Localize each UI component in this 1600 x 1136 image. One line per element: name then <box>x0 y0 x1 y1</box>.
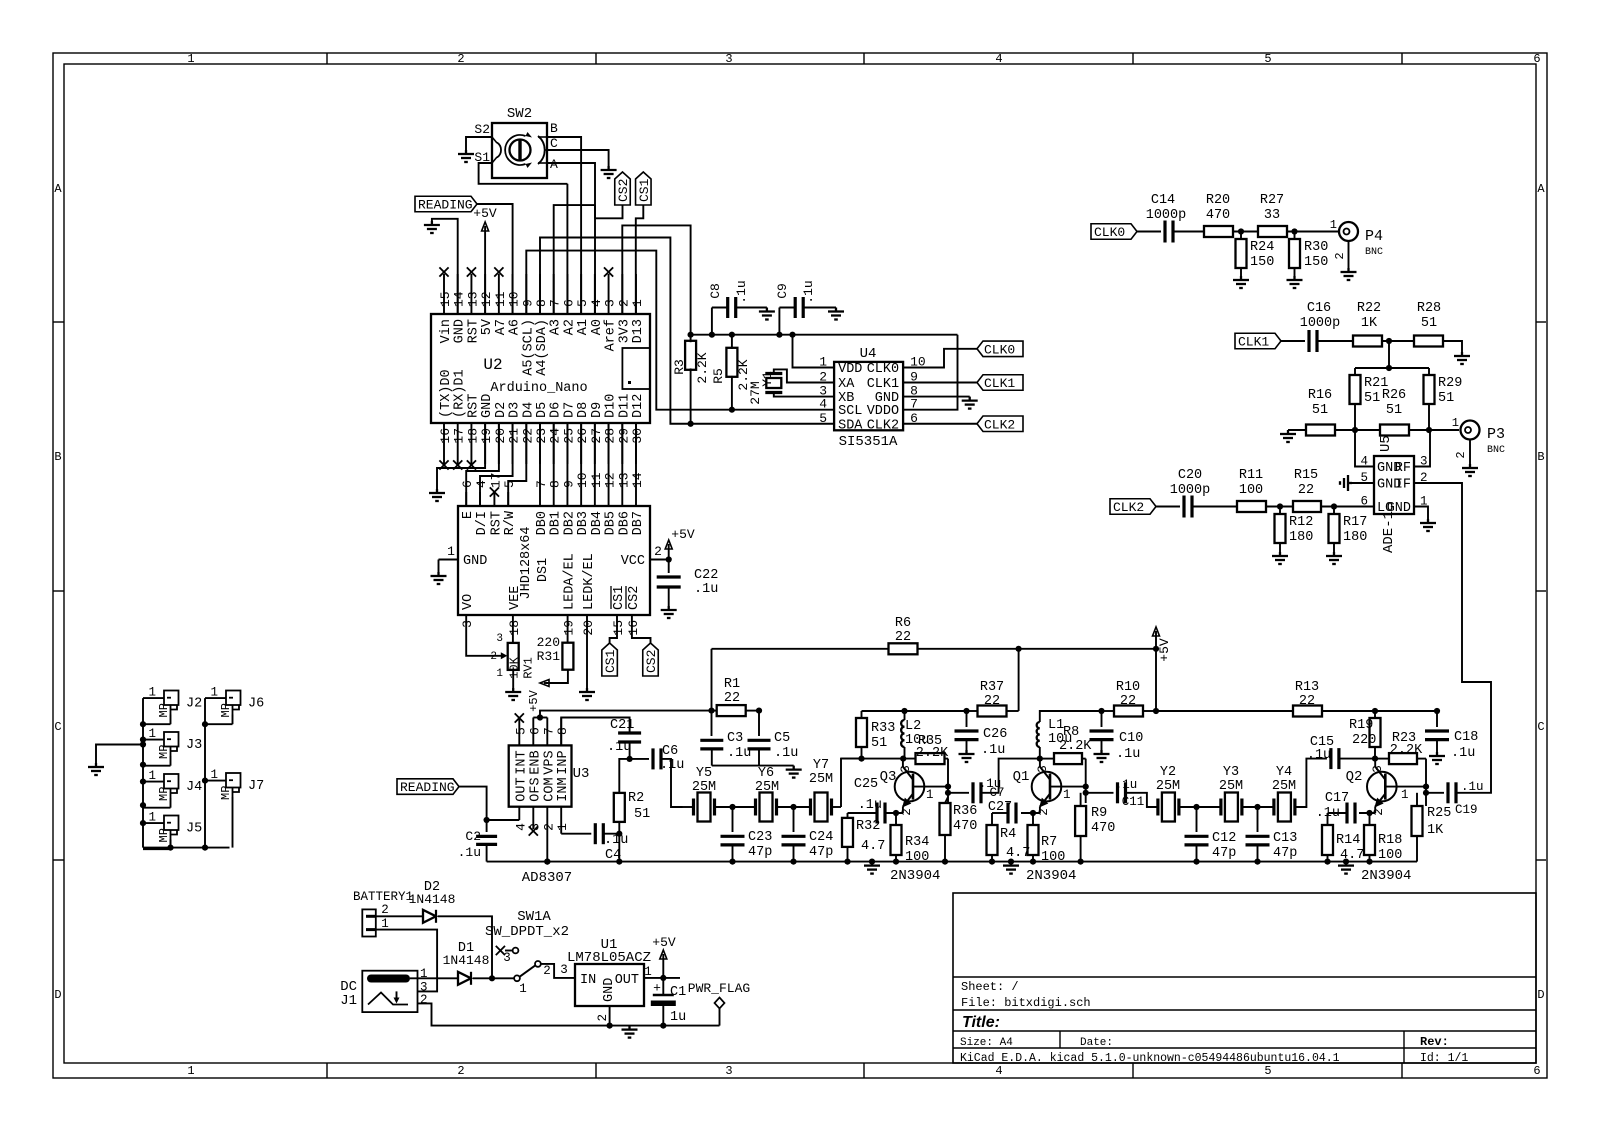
svg-text:C1: C1 <box>670 985 686 1000</box>
svg-text:C20: C20 <box>1178 468 1202 483</box>
svg-text:18: 18 <box>507 620 522 636</box>
svg-text:3: 3 <box>899 765 913 773</box>
svg-text:4.7: 4.7 <box>1340 848 1364 863</box>
svg-text:CS2: CS2 <box>644 650 659 673</box>
svg-text:J1: J1 <box>340 993 357 1009</box>
svg-text:R8: R8 <box>1063 725 1079 740</box>
svg-text:Y6: Y6 <box>758 766 774 781</box>
svg-text:150: 150 <box>1250 255 1274 270</box>
svg-text:SCL: SCL <box>838 404 862 419</box>
svg-text:CLK0: CLK0 <box>867 362 899 377</box>
svg-text:IN: IN <box>580 973 596 988</box>
svg-text:READING: READING <box>400 780 455 795</box>
svg-text:PWR_FLAG: PWR_FLAG <box>688 981 750 996</box>
svg-text:D: D <box>1537 988 1544 1002</box>
svg-text:2: 2 <box>457 52 464 66</box>
svg-text:COM: COM <box>542 777 557 801</box>
svg-text:2: 2 <box>543 964 551 978</box>
svg-text:15: 15 <box>611 620 626 636</box>
svg-text:Y2: Y2 <box>1160 765 1176 780</box>
svg-text:MP: MP <box>157 787 171 801</box>
svg-text:4: 4 <box>474 480 489 488</box>
svg-text:R19: R19 <box>1349 718 1373 733</box>
svg-text:1: 1 <box>187 52 194 66</box>
svg-text:OUT: OUT <box>615 973 639 988</box>
svg-text:INP: INP <box>556 750 571 774</box>
svg-text:VCC: VCC <box>621 554 645 569</box>
svg-text:ADE-1: ADE-1 <box>1381 511 1397 553</box>
svg-text:R4: R4 <box>1000 827 1016 842</box>
svg-text:C14: C14 <box>1151 193 1175 208</box>
svg-text:A: A <box>550 157 558 172</box>
svg-text:R25: R25 <box>1427 806 1451 821</box>
svg-text:100: 100 <box>1378 848 1402 863</box>
svg-text:150: 150 <box>1304 255 1328 270</box>
svg-text:2: 2 <box>1372 808 1386 816</box>
svg-text:R13: R13 <box>1295 680 1319 695</box>
svg-text:R29: R29 <box>1438 376 1462 391</box>
svg-text:BNC: BNC <box>1365 247 1383 258</box>
svg-text:ENB: ENB <box>528 750 543 774</box>
svg-text:6: 6 <box>1533 52 1540 66</box>
svg-text:C23: C23 <box>748 830 772 845</box>
svg-text:CS1: CS1 <box>612 586 627 610</box>
svg-text:Y5: Y5 <box>696 766 712 781</box>
svg-text:E: E <box>461 511 476 519</box>
svg-text:R/W: R/W <box>503 510 518 535</box>
svg-text:R11: R11 <box>1239 468 1263 483</box>
svg-text:VPS: VPS <box>542 750 557 774</box>
svg-text:6: 6 <box>1360 495 1368 509</box>
svg-text:14: 14 <box>630 472 645 488</box>
svg-text:MP: MP <box>157 745 171 759</box>
svg-text:S2: S2 <box>474 122 490 137</box>
svg-text:GND: GND <box>1387 501 1411 516</box>
svg-text:C6: C6 <box>662 744 678 759</box>
svg-text:SDA: SDA <box>838 418 863 433</box>
svg-text:3: 3 <box>496 633 503 645</box>
svg-text:R12: R12 <box>1289 515 1313 530</box>
svg-text:.1u: .1u <box>981 743 1005 758</box>
svg-text:3: 3 <box>460 620 475 628</box>
svg-text:1: 1 <box>630 299 645 307</box>
svg-text:R5: R5 <box>711 368 726 384</box>
svg-text:2N3904: 2N3904 <box>1361 868 1411 884</box>
svg-text:XA: XA <box>838 377 855 392</box>
svg-text:1000p: 1000p <box>1146 208 1187 223</box>
svg-text:P4: P4 <box>1365 228 1383 245</box>
svg-text:R31: R31 <box>537 649 561 664</box>
svg-text:C10: C10 <box>1119 731 1143 746</box>
svg-text:3: 3 <box>725 52 732 66</box>
svg-text:C: C <box>1537 720 1544 734</box>
svg-text:4: 4 <box>995 1064 1002 1078</box>
svg-text:47p: 47p <box>1273 846 1297 861</box>
svg-text:R20: R20 <box>1206 193 1230 208</box>
svg-text:22: 22 <box>1120 694 1136 709</box>
svg-text:B: B <box>54 450 61 464</box>
svg-text:CLK1: CLK1 <box>984 376 1015 391</box>
svg-text:File: bitxdigi.sch: File: bitxdigi.sch <box>961 996 1091 1010</box>
svg-text:VDD: VDD <box>838 362 862 377</box>
svg-text:R26: R26 <box>1382 388 1406 403</box>
svg-text:3: 3 <box>1036 765 1050 773</box>
svg-text:INM: INM <box>556 777 571 801</box>
svg-text:D12: D12 <box>631 394 646 418</box>
svg-text:1K: 1K <box>1361 316 1378 331</box>
svg-text:IF: IF <box>1395 478 1411 493</box>
svg-text:Q1: Q1 <box>1013 769 1030 785</box>
svg-text:51: 51 <box>871 736 887 751</box>
svg-text:CLK0: CLK0 <box>1094 225 1125 240</box>
svg-text:Sheet: /: Sheet: / <box>961 980 1019 994</box>
svg-text:100: 100 <box>1041 850 1065 865</box>
svg-text:470: 470 <box>1091 821 1115 836</box>
svg-text:19: 19 <box>562 620 577 636</box>
svg-text:CS1: CS1 <box>603 649 618 673</box>
svg-text:MP: MP <box>219 703 233 717</box>
svg-text:SW1A: SW1A <box>517 909 551 925</box>
svg-text:3: 3 <box>503 951 511 965</box>
svg-text:100: 100 <box>1239 483 1263 498</box>
svg-text:1: 1 <box>926 788 934 802</box>
svg-text:R33: R33 <box>871 721 895 736</box>
svg-text:DS1: DS1 <box>536 558 551 582</box>
svg-text:30: 30 <box>630 428 645 444</box>
svg-text:22: 22 <box>984 694 1000 709</box>
svg-text:1: 1 <box>1063 788 1071 802</box>
svg-text:C12: C12 <box>1212 831 1236 846</box>
svg-text:2: 2 <box>457 1064 464 1078</box>
svg-text:VDDO: VDDO <box>867 404 899 419</box>
svg-text:RST: RST <box>489 511 504 535</box>
svg-text:1: 1 <box>555 823 570 831</box>
svg-text:C19: C19 <box>1455 803 1478 817</box>
svg-text:4: 4 <box>819 397 827 412</box>
svg-text:D13: D13 <box>631 319 646 343</box>
svg-text:R15: R15 <box>1294 468 1318 483</box>
svg-text:R14: R14 <box>1336 833 1360 848</box>
svg-text:4.7: 4.7 <box>861 839 885 854</box>
svg-text:R10: R10 <box>1116 680 1140 695</box>
svg-text:CLK2: CLK2 <box>867 418 899 433</box>
svg-text:25M: 25M <box>755 780 779 795</box>
svg-text:C17: C17 <box>1325 791 1349 806</box>
svg-text:R28: R28 <box>1417 301 1441 316</box>
svg-text:51: 51 <box>1386 403 1402 418</box>
svg-text:J5: J5 <box>186 822 202 837</box>
svg-text:D/I: D/I <box>475 511 490 535</box>
svg-text:C25: C25 <box>854 777 878 792</box>
svg-text:51: 51 <box>1438 391 1454 406</box>
svg-text:SI5351A: SI5351A <box>839 434 898 450</box>
svg-text:100: 100 <box>905 850 929 865</box>
svg-text:LM78L05ACZ: LM78L05ACZ <box>567 950 651 966</box>
svg-text:R27: R27 <box>1260 193 1284 208</box>
svg-text:Arduino_Nano: Arduino_Nano <box>490 381 587 396</box>
svg-text:51: 51 <box>1421 316 1437 331</box>
svg-text:2: 2 <box>490 651 497 663</box>
svg-text:470: 470 <box>1206 208 1230 223</box>
svg-text:.1u: .1u <box>858 798 882 813</box>
svg-text:.1u: .1u <box>458 845 481 860</box>
svg-text:+5V: +5V <box>473 206 497 221</box>
svg-text:VO: VO <box>461 594 476 610</box>
svg-text:R2: R2 <box>628 791 644 806</box>
svg-text:2.2K: 2.2K <box>1390 743 1423 758</box>
svg-text:C8: C8 <box>708 283 723 299</box>
svg-text:.1u: .1u <box>1451 746 1475 761</box>
svg-text:180: 180 <box>1343 530 1367 545</box>
svg-text:AD8307: AD8307 <box>522 870 572 886</box>
svg-text:P3: P3 <box>1487 426 1505 443</box>
svg-text:1: 1 <box>1401 788 1409 802</box>
svg-text:5: 5 <box>819 411 827 426</box>
svg-text:C22: C22 <box>694 568 718 583</box>
svg-text:5: 5 <box>513 727 528 735</box>
svg-text:L1: L1 <box>1048 718 1064 733</box>
svg-text:4: 4 <box>995 52 1002 66</box>
svg-text:U4: U4 <box>860 346 877 362</box>
svg-text:Date:: Date: <box>1080 1037 1113 1049</box>
svg-text:1K: 1K <box>1427 823 1444 838</box>
svg-text:1u: 1u <box>670 1010 686 1025</box>
svg-text:VEE: VEE <box>508 586 523 610</box>
svg-text:Y3: Y3 <box>1223 765 1239 780</box>
svg-text:L2: L2 <box>905 719 921 734</box>
svg-text:D: D <box>54 988 61 1002</box>
svg-text:CLK1: CLK1 <box>867 377 899 392</box>
svg-text:C: C <box>550 136 558 151</box>
svg-text:.1u: .1u <box>774 746 798 761</box>
svg-text:BATTERY1: BATTERY1 <box>353 890 413 904</box>
svg-text:25M: 25M <box>1219 779 1243 794</box>
svg-text:A: A <box>1537 182 1545 196</box>
svg-text:5: 5 <box>1264 52 1271 66</box>
svg-text:R34: R34 <box>905 835 929 850</box>
svg-text:7: 7 <box>541 727 556 735</box>
svg-text:C13: C13 <box>1273 831 1297 846</box>
svg-text:+5V: +5V <box>1157 638 1172 662</box>
svg-text:51: 51 <box>634 807 650 822</box>
svg-text:22: 22 <box>1299 694 1315 709</box>
svg-text:RV1: RV1 <box>522 657 536 679</box>
svg-text:CLK1: CLK1 <box>1238 335 1269 350</box>
svg-text:C11: C11 <box>1122 795 1145 809</box>
svg-text:BNC: BNC <box>1487 445 1505 456</box>
svg-text:4: 4 <box>513 823 528 831</box>
svg-text:Title:: Title: <box>962 1014 1000 1031</box>
svg-text:10K: 10K <box>508 656 522 678</box>
svg-text:47p: 47p <box>748 845 772 860</box>
svg-text:2.2K: 2.2K <box>916 746 949 761</box>
svg-text:U2: U2 <box>483 356 502 374</box>
svg-text:1000p: 1000p <box>1170 483 1211 498</box>
svg-text:1: 1 <box>496 668 503 680</box>
svg-text:R32: R32 <box>856 819 880 834</box>
svg-text:R18: R18 <box>1378 833 1402 848</box>
svg-text:2: 2 <box>1333 252 1347 259</box>
svg-text:2N3904: 2N3904 <box>1026 868 1076 884</box>
svg-text:25M: 25M <box>692 780 716 795</box>
svg-text:R24: R24 <box>1250 240 1274 255</box>
svg-text:Id: 1/1: Id: 1/1 <box>1420 1052 1468 1065</box>
svg-text:R22: R22 <box>1357 301 1381 316</box>
svg-text:220: 220 <box>537 635 560 650</box>
svg-text:.1u: .1u <box>604 833 628 848</box>
svg-text:.1u: .1u <box>1307 748 1331 763</box>
svg-text:R6: R6 <box>895 616 911 631</box>
svg-text:J2: J2 <box>186 697 202 712</box>
svg-text:R16: R16 <box>1308 388 1332 403</box>
svg-text:2: 2 <box>420 993 428 1007</box>
svg-text:Rev:: Rev: <box>1420 1035 1449 1049</box>
svg-text:J4: J4 <box>186 780 202 795</box>
svg-text:2: 2 <box>596 1014 610 1022</box>
svg-text:C16: C16 <box>1307 301 1331 316</box>
svg-text:C: C <box>54 720 61 734</box>
svg-text:.1u: .1u <box>694 582 718 597</box>
svg-text:2: 2 <box>541 823 556 831</box>
svg-text:C2: C2 <box>465 829 481 844</box>
svg-text:J3: J3 <box>186 738 202 753</box>
svg-text:180: 180 <box>1289 530 1313 545</box>
svg-text:+5V: +5V <box>671 527 695 542</box>
svg-text:Y1: Y1 <box>760 371 775 387</box>
svg-text:Size: A4: Size: A4 <box>960 1037 1013 1049</box>
svg-text:J6: J6 <box>248 697 264 712</box>
svg-text:OFS: OFS <box>528 777 543 801</box>
svg-text:6: 6 <box>1533 1064 1540 1078</box>
svg-text:2N3904: 2N3904 <box>890 868 940 884</box>
svg-text:INT: INT <box>514 750 529 774</box>
svg-text:CLK0: CLK0 <box>984 342 1015 357</box>
svg-text:22: 22 <box>895 630 911 645</box>
svg-text:22: 22 <box>1298 483 1314 498</box>
svg-text:Q2: Q2 <box>1346 769 1363 785</box>
svg-text:6: 6 <box>460 480 475 488</box>
svg-text:51: 51 <box>1312 403 1328 418</box>
svg-text:C3: C3 <box>727 731 743 746</box>
svg-text:1N4148: 1N4148 <box>443 953 490 968</box>
svg-text:3: 3 <box>1371 765 1385 773</box>
svg-text:OUT: OUT <box>514 777 529 801</box>
svg-text:GND: GND <box>602 978 617 1002</box>
svg-text:25M: 25M <box>1156 779 1180 794</box>
svg-text:17: 17 <box>488 472 503 488</box>
svg-text:47p: 47p <box>809 845 833 860</box>
svg-text:LEDK/EL: LEDK/EL <box>582 553 597 610</box>
svg-text:R37: R37 <box>980 680 1004 695</box>
svg-text:16: 16 <box>626 620 641 636</box>
svg-text:3: 3 <box>725 1064 732 1078</box>
svg-text:R7: R7 <box>1041 835 1057 850</box>
svg-text:U3: U3 <box>573 766 590 782</box>
svg-text:C21: C21 <box>610 718 634 733</box>
svg-text:C26: C26 <box>983 727 1007 742</box>
svg-text:KiCad E.D.A. kicad 5.1.0-unkn: KiCad E.D.A. kicad 5.1.0-unknown-c054944… <box>960 1052 1340 1065</box>
svg-text:R17: R17 <box>1343 515 1367 530</box>
svg-text:20: 20 <box>581 620 596 636</box>
svg-text:R30: R30 <box>1304 240 1328 255</box>
svg-text:C18: C18 <box>1454 730 1478 745</box>
svg-text:2.2K: 2.2K <box>1059 739 1092 754</box>
svg-text:5: 5 <box>1264 1064 1271 1078</box>
svg-text:1: 1 <box>447 544 455 559</box>
svg-text:1: 1 <box>1330 218 1337 232</box>
svg-text:C24: C24 <box>809 830 833 845</box>
svg-text:+: + <box>653 981 661 996</box>
svg-text:C5: C5 <box>774 731 790 746</box>
svg-text:READING: READING <box>418 198 473 213</box>
svg-text:2: 2 <box>1454 451 1468 458</box>
svg-text:B: B <box>550 121 558 136</box>
svg-text:CS2: CS2 <box>616 179 631 202</box>
svg-text:R3: R3 <box>672 359 687 375</box>
svg-text:+5V: +5V <box>652 935 676 950</box>
svg-text:1: 1 <box>519 982 527 996</box>
svg-text:7: 7 <box>910 397 918 412</box>
svg-text:.1u: .1u <box>660 758 684 773</box>
svg-text:CLK2: CLK2 <box>1113 500 1144 515</box>
svg-text:.1u: .1u <box>607 740 631 755</box>
svg-text:GND: GND <box>463 554 487 569</box>
svg-text:CLK2: CLK2 <box>984 417 1015 432</box>
svg-text:1: 1 <box>1452 416 1459 430</box>
svg-text:.1u: .1u <box>1116 747 1140 762</box>
svg-text:R1: R1 <box>724 677 740 692</box>
svg-text:MP: MP <box>157 828 171 842</box>
svg-text:2.2K: 2.2K <box>695 352 710 383</box>
svg-text:1000p: 1000p <box>1300 316 1341 331</box>
svg-text:A: A <box>54 182 62 196</box>
svg-text:R36: R36 <box>953 804 977 819</box>
svg-text:220: 220 <box>1352 733 1376 748</box>
svg-text:U5: U5 <box>1378 435 1394 452</box>
svg-text:22: 22 <box>724 691 740 706</box>
svg-text:1N4148: 1N4148 <box>409 892 456 907</box>
svg-text:Y4: Y4 <box>1276 765 1292 780</box>
svg-text:C9: C9 <box>775 283 790 299</box>
svg-text:470: 470 <box>953 819 977 834</box>
svg-text:MP: MP <box>219 786 233 800</box>
svg-text:1: 1 <box>187 1064 194 1078</box>
svg-text:B: B <box>1537 450 1544 464</box>
svg-text:CS1: CS1 <box>637 178 652 202</box>
svg-text:8: 8 <box>555 727 570 735</box>
svg-text:J7: J7 <box>248 779 264 794</box>
svg-text:1: 1 <box>644 965 652 979</box>
svg-text:25M: 25M <box>1272 779 1296 794</box>
svg-text:SW2: SW2 <box>507 106 532 122</box>
svg-text:CS2: CS2 <box>627 586 642 610</box>
svg-text:RF: RF <box>1395 461 1411 476</box>
svg-text:51: 51 <box>1364 391 1380 406</box>
svg-text:.1u: .1u <box>1115 778 1138 792</box>
svg-text:2: 2 <box>654 544 662 559</box>
svg-text:DB7: DB7 <box>631 511 646 535</box>
svg-text:25M: 25M <box>809 772 833 787</box>
svg-text:SW_DPDT_x2: SW_DPDT_x2 <box>485 924 569 940</box>
svg-text:47p: 47p <box>1212 846 1236 861</box>
svg-text:2: 2 <box>381 903 389 917</box>
svg-text:MP: MP <box>157 703 171 717</box>
svg-text:6: 6 <box>527 727 542 735</box>
svg-text:33: 33 <box>1264 208 1280 223</box>
svg-text:Y7: Y7 <box>813 758 829 773</box>
svg-text:R9: R9 <box>1091 806 1107 821</box>
svg-text:LEDA/EL: LEDA/EL <box>563 553 578 610</box>
